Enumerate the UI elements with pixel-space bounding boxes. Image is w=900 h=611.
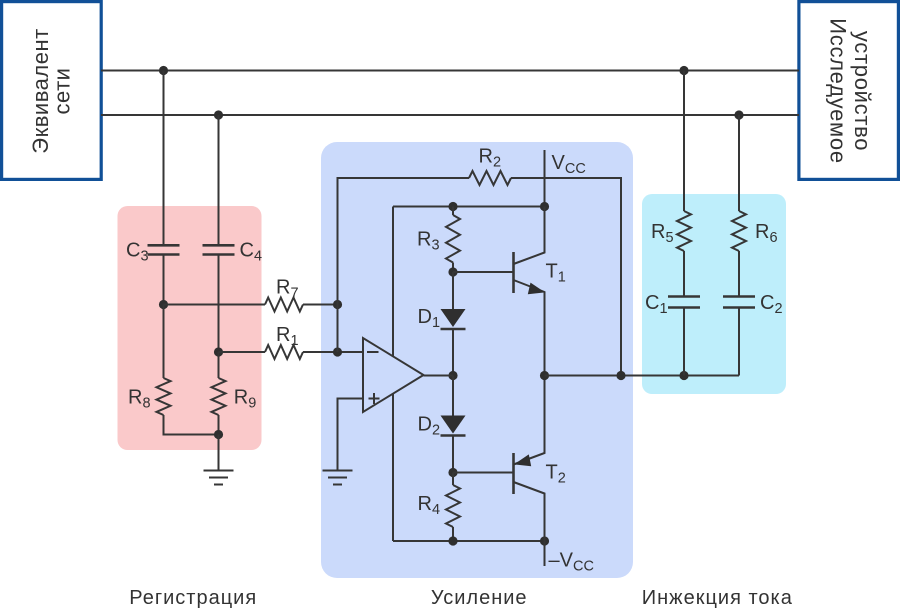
op-amp U1 triangle xyxy=(363,338,424,412)
node: op-amp output / diode mid xyxy=(448,371,457,380)
svg-text:Регистрация: Регистрация xyxy=(129,587,257,609)
wire R7 row xyxy=(164,304,266,306)
region: Инжекция тока (cyan) xyxy=(642,194,786,394)
wire feedback: minus node up and across (left part) xyxy=(338,178,470,352)
power VCC stub xyxy=(544,150,546,207)
ground (registration) xyxy=(204,471,234,485)
wire R7 to minus-net xyxy=(303,304,338,306)
wire D1 to output node xyxy=(452,329,454,376)
node: rail1 / R5 branch xyxy=(679,66,688,75)
wire rail 2 xyxy=(101,114,799,116)
box: Исследуемое устройство xyxy=(799,2,899,180)
wire R3 top row xyxy=(393,206,545,208)
wire R1 row xyxy=(219,351,266,353)
resistor R1 xyxy=(265,345,303,359)
transistor T1 xyxy=(514,207,566,376)
node: C4/R1/R9 junction xyxy=(214,347,223,356)
node: R8/R9 ground junction xyxy=(214,430,223,439)
wire op-amp output xyxy=(424,375,454,377)
box: Эквивалент сети xyxy=(2,2,102,180)
transistor T2 xyxy=(514,376,566,542)
wire C3 branch down xyxy=(163,71,165,246)
wire T2 base xyxy=(453,472,514,474)
node: push-pull output xyxy=(540,371,549,380)
svg-text:Инжекция тока: Инжекция тока xyxy=(642,587,793,609)
diode D2 xyxy=(418,376,466,439)
wire ground stem xyxy=(218,435,220,471)
op-amp plus sign xyxy=(369,393,380,404)
ground (op-amp plus input) xyxy=(323,471,353,485)
resistor R4 xyxy=(452,473,454,486)
wire R5 branch from rail1 xyxy=(683,71,685,212)
node: R1 / minus input xyxy=(333,347,342,356)
resistor R5 xyxy=(677,211,691,251)
capacitor C3 xyxy=(126,240,180,265)
resistor R8 xyxy=(163,305,165,379)
capacitor C1 xyxy=(645,292,700,317)
op-amp minus sign xyxy=(367,351,379,353)
resistor R9 xyxy=(218,352,220,378)
diode D1 xyxy=(418,272,466,331)
wire R6 branch from rail2 xyxy=(738,115,740,211)
region: Регистрация (pink) xyxy=(118,206,262,450)
wire T1 base xyxy=(453,271,514,273)
resistor R6 xyxy=(732,211,746,251)
node: rail1 / C3 branch xyxy=(159,66,168,75)
wire inner-left vertical (behind op-amp) xyxy=(392,207,394,542)
node: -VCC / T2 collector xyxy=(540,536,549,545)
node: VCC / top row xyxy=(540,202,549,211)
node: D2/R4/T2-base xyxy=(448,468,457,477)
resistor R3 xyxy=(446,215,460,263)
wire R8 bottom corner xyxy=(164,415,219,435)
capacitor C4 xyxy=(203,240,263,265)
wire C4 to R1 node xyxy=(218,255,220,353)
wire D2 to T2 base node xyxy=(452,436,454,473)
power -VCC stub xyxy=(544,541,546,566)
wire C4 branch down xyxy=(218,115,220,245)
node: R7 / feedback vertical xyxy=(333,300,342,309)
svg-text:Усиление: Усиление xyxy=(431,587,528,609)
node: R3/D1/T1-base xyxy=(448,267,457,276)
node: feedback tap xyxy=(616,371,625,380)
node: rail2 / C4 branch xyxy=(214,110,223,119)
node: C1 bottom xyxy=(679,371,688,380)
wire rail 1 (top) xyxy=(101,70,799,72)
wire feedback: across and down to output xyxy=(511,178,621,376)
wire C3 to R7 node xyxy=(163,255,165,305)
wire output row xyxy=(545,375,740,377)
node: rail2 / R6 branch xyxy=(734,110,743,119)
node: R3 top xyxy=(448,202,457,211)
resistor R2 xyxy=(469,171,511,185)
wire R1 to op-amp minus input xyxy=(303,351,363,353)
region: Усиление (blue) xyxy=(321,142,633,578)
node: C3/R7/R8 junction xyxy=(159,300,168,309)
resistor R7 xyxy=(265,298,303,312)
wire op-amp minus input (from R1 node) done above; plus input wire xyxy=(338,399,364,471)
svg-text:устройствоИсследуемое: устройствоИсследуемое xyxy=(826,18,876,164)
wire bottom row xyxy=(393,540,545,542)
capacitor C2 xyxy=(723,292,783,317)
node: R4 bottom xyxy=(448,536,457,545)
